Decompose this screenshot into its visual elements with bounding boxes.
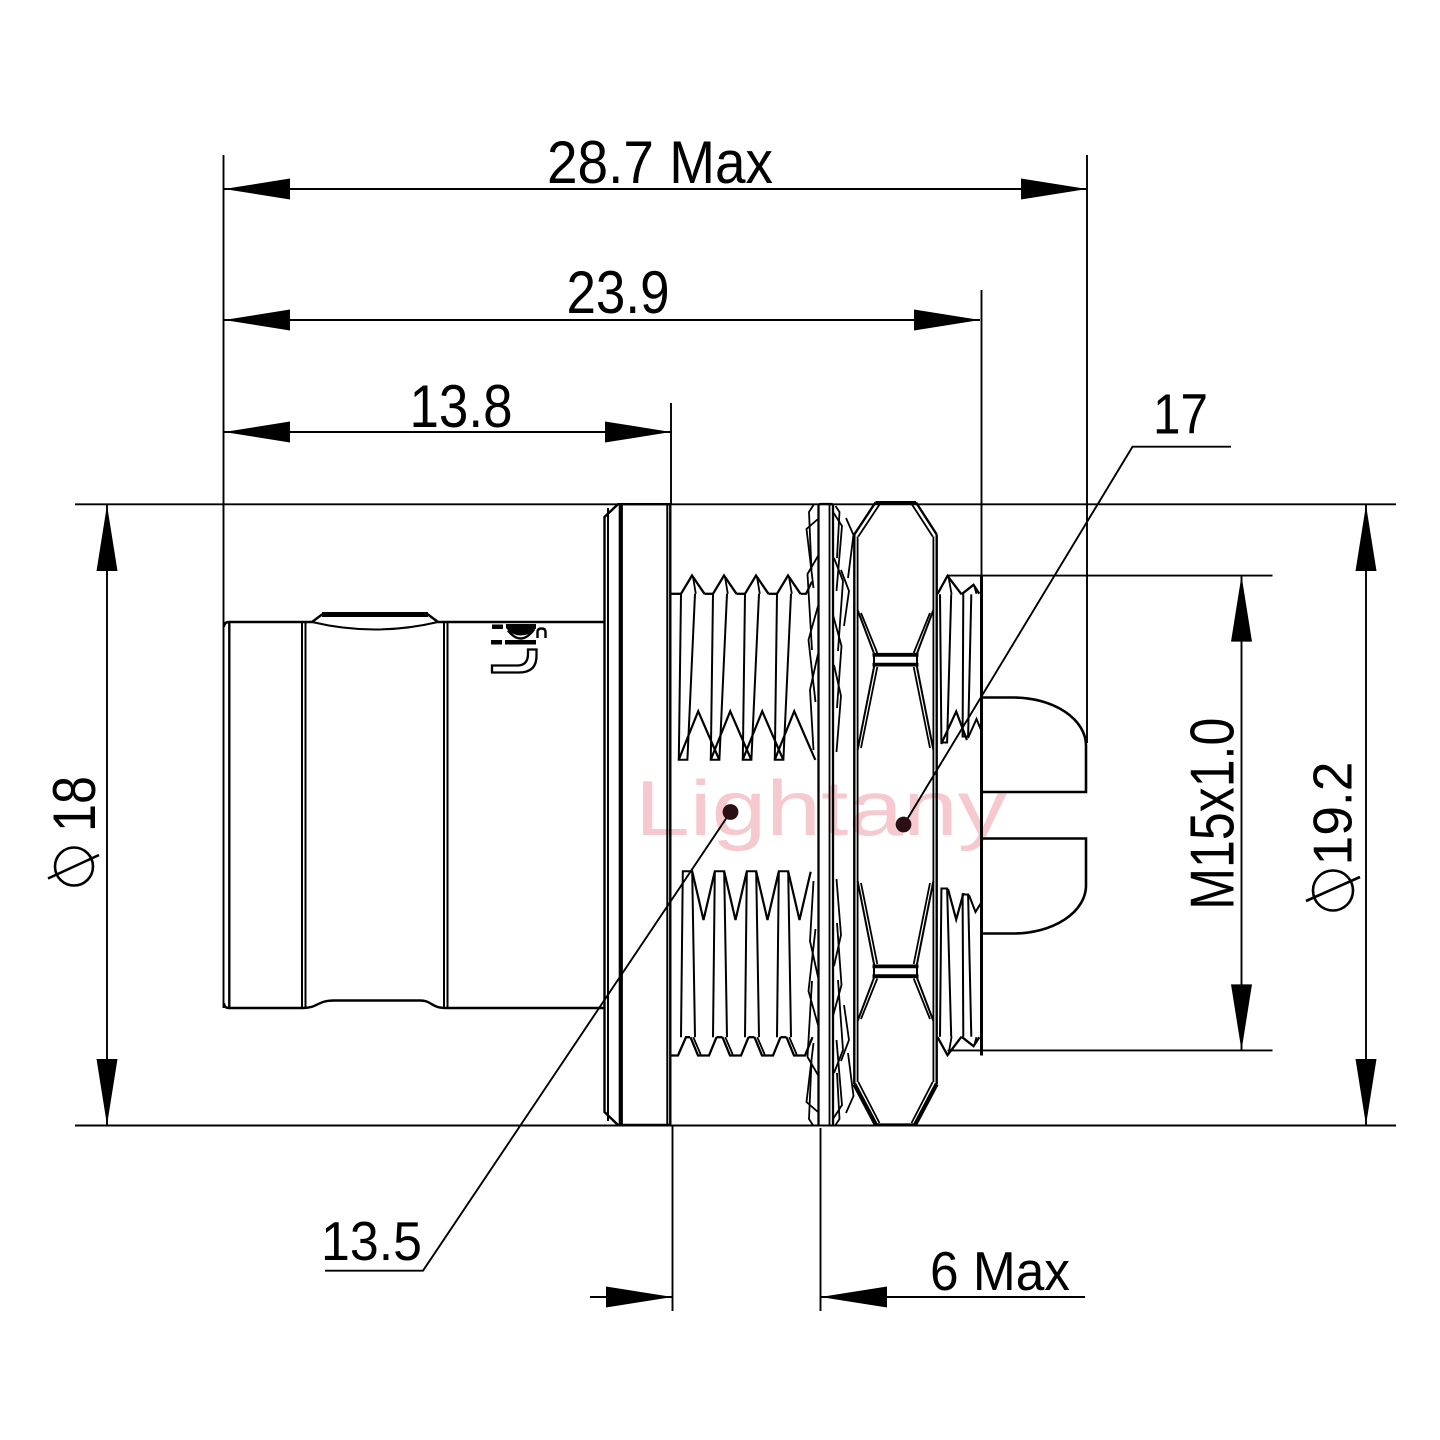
extension line top y=504.3 (75, 503, 1396, 505)
svg-text:19.2: 19.2 (1302, 762, 1364, 866)
nut top flat (876, 501, 917, 504)
front shell bottom edge (224, 1001, 604, 1009)
contact tab upper (982, 698, 1087, 793)
label dia18 symbol (55, 848, 93, 886)
svg-text:M15x1.0: M15x1.0 (1179, 718, 1248, 910)
extension line bottom y=1125.5 (75, 1125, 1396, 1127)
extension line right x=1087 (1086, 155, 1088, 743)
lock washer plate (819, 504, 834, 1126)
dimension dia19.2 vertical line (1365, 505, 1367, 1125)
svg-text:13.5: 13.5 (321, 1210, 422, 1272)
lock washer teeth left (807, 519, 819, 588)
dimension 6 Max (590, 1296, 673, 1298)
rear thread bottom tents (948, 889, 964, 920)
rear thread top teeth (938, 576, 962, 595)
label dia18 digits (41, 776, 108, 832)
leader dot thread (723, 804, 739, 820)
flange thick inner line (619, 505, 623, 1124)
svg-text:13.8: 13.8 (410, 373, 513, 440)
extension line M15 bottom (948, 1049, 1273, 1051)
extension line x=671 (670, 403, 672, 504)
nut bottom chamfers (854, 1084, 876, 1125)
contact tab lower (982, 839, 1087, 934)
front shell key arc (312, 622, 438, 630)
engraving mark letter L outline (492, 650, 537, 673)
rear thread bottom teeth (938, 1037, 962, 1056)
svg-text:28.7 Max: 28.7 Max (547, 129, 773, 196)
flange outline (605, 504, 671, 1125)
engraving mark dash1 (492, 625, 503, 630)
engraving mark small n (538, 629, 546, 639)
nut outer sides (853, 535, 855, 1085)
nut face diagonals lower (858, 977, 875, 1021)
leader line 13.5 (325, 812, 731, 1271)
label dia19.2 symbol (1313, 871, 1353, 911)
rear face line (980, 576, 983, 1056)
extension line x=672.5 bottom (672, 1126, 674, 1311)
dimension 13.8 (224, 431, 672, 433)
lock washer teeth right (833, 512, 842, 591)
svg-text:6 Max: 6 Max (930, 1240, 1070, 1302)
front thread top slots (679, 594, 695, 760)
nut waist upper (874, 654, 917, 665)
nut waist lower (874, 966, 917, 977)
front thread bottom teeth (672, 1037, 691, 1055)
nut face diagonals upper (858, 610, 875, 654)
extension line x=981.5 (981, 290, 983, 578)
front thread top teeth (672, 593, 682, 595)
flange left inner edge (604, 517, 606, 1112)
nut bottom flat (876, 1123, 915, 1126)
engraving mark dash2 (491, 640, 502, 645)
extension line x=820.5 bottom (820, 1128, 822, 1311)
leader dot nut (896, 817, 912, 833)
front shell groove lines 1 (301, 622, 303, 1008)
front thread top tents (679, 711, 720, 760)
extension line left x=223.5 (223, 155, 225, 1008)
rear thread top slots (940, 594, 951, 742)
svg-text:18: 18 (41, 776, 108, 832)
engraving mark underline (505, 640, 536, 645)
dimension 23.9 (224, 319, 981, 321)
label dia19.2 digits (1302, 762, 1364, 866)
front shell groove lines 2 (443, 622, 445, 1008)
rear thread bottom slots (940, 889, 951, 1037)
nut top chamfers (854, 502, 875, 534)
flange right inner edge (666, 504, 668, 1125)
svg-text:Lightany: Lightany (635, 764, 1007, 852)
front shell left edge (228, 622, 230, 1008)
engraving mark blob (506, 624, 536, 636)
svg-text:23.9: 23.9 (567, 259, 670, 326)
nut face diagonals upper-mid (858, 666, 875, 751)
extension line M15 top (948, 575, 1273, 577)
dimension dia18 vertical line (106, 505, 108, 1125)
front thread bottom tents (692, 872, 714, 920)
nut face diagonals lower-mid (858, 881, 875, 966)
dimension M15x1.0 vertical line (1241, 576, 1243, 1051)
front thread bottom slots (681, 871, 695, 1037)
rear thread top tents (941, 712, 967, 745)
dimension 28.7 Max (224, 188, 1088, 190)
front shell top edge with key (224, 615, 604, 628)
leader line 17 (904, 447, 1231, 825)
label M15x1.0 (1179, 718, 1248, 910)
svg-text:17: 17 (1153, 383, 1208, 447)
